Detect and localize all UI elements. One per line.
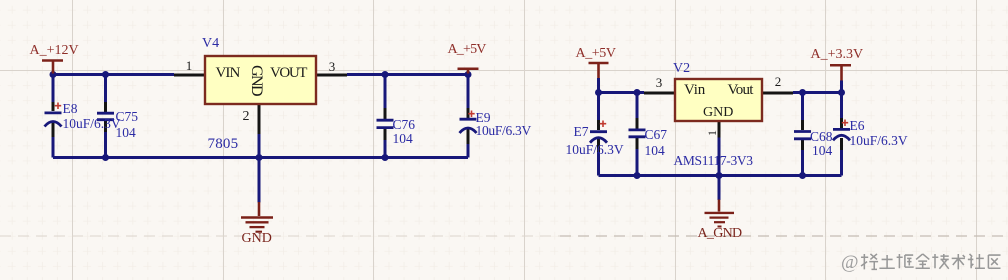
svg-text:@: @ [841, 252, 859, 273]
